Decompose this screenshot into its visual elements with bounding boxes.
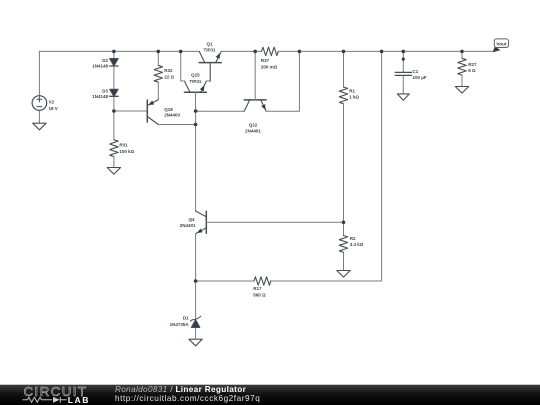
transistor Q15 (NPN TIP31)	[184, 81, 206, 92]
diode D2	[110, 59, 118, 66]
junction rail/C1	[402, 50, 406, 54]
svg-text:C1: C1	[413, 69, 419, 74]
wire Q15 collector up to rail	[181, 51, 185, 81]
wire Q22 base up to rail	[254, 51, 256, 100]
svg-text:LAB: LAB	[68, 395, 90, 405]
resistor R27	[458, 51, 466, 86]
junction rail/R32	[157, 50, 161, 54]
junction C1 lead	[402, 58, 405, 61]
wire Q4 emitter down	[195, 234, 197, 281]
svg-text:1 kΩ: 1 kΩ	[349, 95, 359, 100]
svg-text:Vout: Vout	[496, 41, 507, 47]
ground (below R31)	[107, 168, 120, 175]
resistor R37	[262, 47, 279, 55]
svg-text:22 Ω: 22 Ω	[164, 75, 174, 80]
svg-text:R32: R32	[164, 68, 173, 73]
wire Q18 collector to center column	[158, 124, 195, 126]
svg-text:18 V: 18 V	[49, 106, 58, 111]
ground (below R2)	[337, 271, 350, 278]
svg-text:Q22: Q22	[249, 123, 258, 128]
svg-text:Q4: Q4	[188, 217, 195, 222]
junction Q18 collector/column	[194, 123, 198, 127]
transistor Q1 (NPN TIP31)	[199, 51, 221, 81]
svg-text:D1: D1	[183, 316, 189, 321]
diode D3	[110, 89, 118, 96]
svg-text:TIP31: TIP31	[189, 79, 202, 84]
svg-text:Q15: Q15	[191, 73, 200, 78]
ground (below D1)	[189, 339, 202, 346]
wire Q22 collector to center column	[196, 110, 245, 112]
svg-text:Q1: Q1	[206, 41, 213, 46]
resistor R2	[339, 222, 347, 270]
junction rail/Q22 emitter	[298, 50, 302, 54]
svg-text:D3: D3	[102, 88, 108, 93]
junction rail/Q22 base	[253, 50, 257, 54]
wire long feedback from rail down to R17 row	[271, 51, 382, 281]
junction rail/D2	[112, 50, 116, 54]
junction Q4 emitter/D1/R17	[194, 279, 198, 283]
svg-text:3.3 kΩ: 3.3 kΩ	[350, 242, 364, 247]
wire Q18 base row	[114, 110, 147, 112]
ground (below V2)	[33, 123, 46, 130]
svg-text:2N4401: 2N4401	[245, 128, 261, 133]
svg-text:2N4403: 2N4403	[164, 113, 180, 118]
svg-text:R37: R37	[261, 58, 270, 63]
diode D1 (zener 1N4735A)	[190, 281, 201, 339]
svg-text:2N4401: 2N4401	[180, 223, 196, 228]
junction rail/R17 feedback	[380, 50, 384, 54]
junction R1/R2/Q4 base	[342, 221, 346, 225]
svg-text:D2: D2	[102, 58, 108, 63]
resistor R31	[110, 140, 118, 168]
svg-text:R1: R1	[349, 88, 355, 93]
junction rail/Q15 collector	[179, 50, 183, 54]
svg-text:R17: R17	[253, 286, 262, 291]
svg-text:TIP31: TIP31	[203, 48, 216, 53]
svg-text:R27: R27	[468, 62, 477, 67]
wire Q15 emitter to Q1 base	[206, 80, 210, 82]
svg-text:200 mΩ: 200 mΩ	[261, 65, 278, 70]
voltage source V2	[32, 51, 47, 123]
svg-text:http://circuitlab.com/ccck6g2f: http://circuitlab.com/ccck6g2far97q	[115, 394, 260, 403]
wire Q4 base row to divider	[206, 221, 343, 223]
svg-text:R31: R31	[119, 142, 128, 147]
capacitor C1	[395, 51, 411, 94]
svg-text:V2: V2	[49, 100, 55, 105]
transistor Q18 (PNP 2N4403)	[147, 100, 158, 125]
svg-text:Q18: Q18	[164, 107, 173, 112]
svg-text:Ronaldo0831 / Linear Regulator: Ronaldo0831 / Linear Regulator	[115, 385, 247, 394]
ground (below C1)	[397, 94, 409, 100]
resistor R32	[154, 51, 162, 99]
svg-text:R2: R2	[350, 236, 356, 241]
transistor Q22 (NPN 2N4401)	[244, 100, 266, 111]
wire Q15 base column down	[194, 92, 196, 211]
svg-text:1N4148: 1N4148	[92, 94, 108, 99]
svg-text:1N4735A: 1N4735A	[170, 322, 190, 327]
svg-text:6 Ω: 6 Ω	[468, 68, 476, 73]
svg-text:1N4148: 1N4148	[92, 64, 108, 69]
wire top rail left segment	[39, 50, 199, 52]
node Vout flag	[493, 39, 509, 52]
ground (below R27)	[455, 87, 468, 94]
svg-text:100 kΩ: 100 kΩ	[119, 149, 134, 154]
transistor Q4 (NPN 2N4401)	[196, 211, 207, 234]
wire top rail right segment	[221, 50, 493, 52]
junction rail/R27	[460, 50, 464, 54]
resistor R17	[196, 280, 254, 282]
wire D-column	[113, 51, 115, 139]
wire Q22 emitter to rail after R37	[266, 51, 299, 111]
svg-text:560 Ω: 560 Ω	[253, 292, 266, 297]
junction rail/R1	[342, 50, 346, 54]
junction Q22 collector/column	[194, 109, 198, 113]
junction D3/R31/Q18 base	[112, 109, 116, 113]
resistor R1	[339, 51, 347, 222]
CircuitLab logo	[23, 384, 90, 405]
svg-text:100 µF: 100 µF	[413, 75, 427, 80]
